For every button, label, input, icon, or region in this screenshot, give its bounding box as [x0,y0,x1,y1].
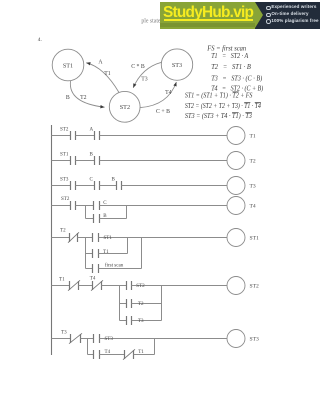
svg-text:T3: T3 [250,184,256,190]
svg-text:ple state: ple state [141,18,161,24]
svg-text:T1: T1 [103,249,109,255]
svg-text:ST1: ST1 [250,236,260,242]
svg-text:T1: T1 [138,349,144,355]
svg-text:T2 = ST1 · B: T2 = ST1 · B [211,63,251,71]
svg-text:ST2: ST2 [250,284,260,290]
svg-text:T2: T2 [60,227,66,233]
svg-text:C + B: C + B [156,109,170,115]
svg-text:T2: T2 [138,301,144,307]
svg-text:ST3: ST3 [172,62,182,69]
svg-text:ST3: ST3 [60,176,69,182]
svg-text:B: B [66,95,70,101]
svg-text:first scan: first scan [105,261,124,268]
svg-text:C * B: C * B [131,64,145,70]
svg-text:T3: T3 [138,318,144,324]
svg-text:4.: 4. [38,37,42,43]
svg-text:T1: T1 [250,134,256,140]
svg-text:B: B [90,151,94,157]
svg-text:ST1: ST1 [63,62,73,69]
svg-text:T1: T1 [59,276,65,282]
svg-text:T1: T1 [104,71,111,77]
svg-text:T4: T4 [165,90,172,96]
svg-text:T3: T3 [61,329,67,335]
svg-text:ST2: ST2 [61,196,70,202]
svg-text:ST3: ST3 [105,336,114,342]
svg-text:FS = first scan: FS = first scan [206,44,246,52]
svg-text:T4: T4 [250,204,256,210]
svg-text:ST1: ST1 [104,235,113,241]
svg-text:T4: T4 [90,276,96,282]
svg-text:T4: T4 [105,349,111,355]
svg-text:ST2: ST2 [60,126,69,132]
svg-text:B: B [112,176,116,182]
svg-text:ST3: ST3 [250,337,260,343]
svg-text:T1 = ST2 · A: T1 = ST2 · A [211,52,249,60]
svg-text:ST1: ST1 [60,151,69,157]
svg-text:ST2: ST2 [136,283,145,289]
svg-text:T3 = ST3 · (C · B): T3 = ST3 · (C · B) [211,74,263,82]
svg-text:T2: T2 [80,95,87,101]
svg-text:ST2 = (ST2 + T2 + T3) · T1 · T: ST2 = (ST2 + T2 + T3) · T1 · T4 [185,102,261,110]
svg-text:T3: T3 [141,76,148,82]
svg-text:A: A [90,126,94,132]
svg-text:ST1 = (ST1 + T1) · T2 + FS: ST1 = (ST1 + T1) · T2 + FS [185,91,253,99]
svg-text:ST2: ST2 [120,104,130,111]
svg-text:A: A [98,60,103,66]
svg-text:C: C [90,176,94,182]
svg-text:T2: T2 [250,159,256,165]
svg-text:ST3 = (ST3 + T4 · T1) · T3: ST3 = (ST3 + T4 · T1) · T3 [185,112,252,120]
svg-text:C: C [103,200,107,206]
